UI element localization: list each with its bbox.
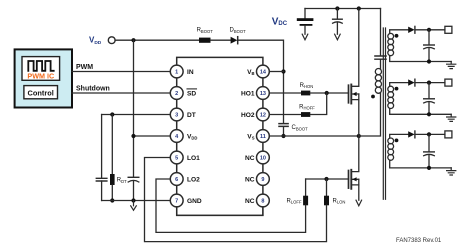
ground output 1 <box>447 62 456 69</box>
svg-text:Control: Control <box>28 88 54 97</box>
wire VS line <box>269 135 359 137</box>
node gate Q2 <box>324 177 328 181</box>
pin labels right <box>241 69 255 205</box>
svg-text:14: 14 <box>260 70 267 76</box>
pin 3 <box>170 108 183 121</box>
terminal output 3 <box>445 131 452 138</box>
svg-text:CBOOT: CBOOT <box>292 125 309 131</box>
node switching <box>357 134 361 138</box>
wire pin12 to RHOFF <box>269 114 301 116</box>
pin 6 <box>170 173 183 186</box>
node top2 <box>357 6 361 10</box>
svg-text:PWM: PWM <box>76 64 93 71</box>
node VB <box>281 69 285 73</box>
terminal output 1 <box>445 26 452 33</box>
wire pin14 stub <box>269 71 283 73</box>
svg-text:2: 2 <box>175 91 178 97</box>
resistor RBOOT <box>199 38 211 43</box>
svg-text:7: 7 <box>175 199 178 205</box>
SD overline <box>187 88 197 90</box>
resistor RHOFF <box>301 112 310 117</box>
svg-text:RHON: RHON <box>300 83 314 89</box>
ground arrow left <box>131 201 137 211</box>
pin 13 <box>257 87 270 100</box>
wire RLON top stub <box>326 179 328 196</box>
svg-text:RBOOT: RBOOT <box>197 28 214 34</box>
svg-text:6: 6 <box>175 177 178 183</box>
PWM IC inner box <box>22 57 60 81</box>
wire pin13 to RHON <box>269 92 301 94</box>
svg-text:RLOFF: RLOFF <box>286 198 301 204</box>
primary winding <box>375 69 381 75</box>
resistor RHON <box>301 91 310 96</box>
primary phase dot <box>371 95 375 99</box>
svg-text:IN: IN <box>187 69 194 76</box>
wire RHON to gate Q1 <box>310 92 348 94</box>
ground output 3 <box>447 168 456 175</box>
wire DT down branch <box>101 115 103 179</box>
wire VDD rail <box>115 39 199 41</box>
ground arrow C filter <box>335 34 341 40</box>
capacitor CBOOT <box>279 124 288 127</box>
wire RBOOT to DBOOT <box>211 39 231 41</box>
pin 1 <box>170 65 183 78</box>
wire to output 3 <box>415 133 445 135</box>
svg-text:12: 12 <box>260 113 266 119</box>
pin 14 <box>257 65 270 78</box>
wire to output 2 <box>415 82 445 84</box>
capacitor C series primary <box>375 56 386 59</box>
resistor RLOFF <box>303 196 308 206</box>
svg-text:5: 5 <box>175 156 178 162</box>
pin labels left <box>187 69 202 205</box>
node CBOOT/VS <box>281 134 285 138</box>
svg-text:3: 3 <box>175 113 178 119</box>
wire GND pin7-pin8 jumper <box>177 207 263 216</box>
wire pin4 stub <box>134 135 171 137</box>
svg-text:NC: NC <box>245 198 255 205</box>
resistor RLON <box>324 196 329 206</box>
svg-text:11: 11 <box>260 134 266 140</box>
wire lower gate line <box>306 178 349 180</box>
transformer core <box>383 28 385 199</box>
capacitor C1 <box>96 178 107 181</box>
diode D1 <box>408 27 414 33</box>
terminal VDD <box>108 37 115 44</box>
pin 8 <box>257 194 270 207</box>
pin 10 <box>257 151 270 164</box>
wire bottom rail 3 <box>390 160 452 168</box>
ground arrow Q2 source <box>356 200 362 206</box>
wire to output 1 <box>415 29 445 31</box>
wire CBOOT to VS <box>283 127 285 136</box>
ground output 2 <box>447 114 456 121</box>
wire C1 to ground rail <box>101 181 103 201</box>
transistor Q1 (high side MOSFET) <box>351 9 359 87</box>
svg-text:FAN7383 Rev.01: FAN7383 Rev.01 <box>396 238 442 244</box>
wire Shutdown <box>72 92 170 94</box>
svg-text:DBOOT: DBOOT <box>229 28 246 34</box>
capacitor C out1 <box>428 30 430 45</box>
svg-text:LO2: LO2 <box>187 176 200 183</box>
ground arrow CDC <box>302 34 308 40</box>
diode DBOOT <box>231 37 238 44</box>
svg-text:RDT: RDT <box>117 177 127 183</box>
svg-text:NC: NC <box>245 176 255 183</box>
svg-text:13: 13 <box>260 91 266 97</box>
svg-text:PWM IC: PWM IC <box>27 72 54 81</box>
resistor RDT <box>110 174 115 185</box>
svg-text:GND: GND <box>187 198 202 205</box>
IC U1 FAN7383 outline <box>177 57 263 215</box>
secondary 3 winding <box>390 134 409 138</box>
pin 9 <box>257 173 270 186</box>
transistor Q2 (low side MOSFET) <box>351 136 359 172</box>
Control inner box <box>24 86 58 99</box>
terminal output 2 <box>445 79 452 86</box>
svg-text:Shutdown: Shutdown <box>76 86 110 93</box>
wire RDT to ground rail <box>111 185 113 201</box>
pin 11 <box>257 130 270 143</box>
pin 7 <box>170 194 183 207</box>
svg-text:HO2: HO2 <box>241 112 255 119</box>
wire RHOFF up to gate node <box>310 93 326 115</box>
node gate Q1 <box>325 91 329 95</box>
svg-text:HO1: HO1 <box>241 90 255 97</box>
wire C2 to ground rail <box>133 181 135 200</box>
capacitor C out2 <box>428 83 430 99</box>
svg-text:8: 8 <box>261 199 264 205</box>
secondary 1 winding <box>390 30 409 34</box>
pin 2 <box>170 87 183 100</box>
node VDD/pin4 branch <box>131 38 135 42</box>
svg-text:1: 1 <box>175 70 178 76</box>
wire VDD vertical <box>133 40 135 177</box>
node ground <box>131 198 135 202</box>
node top1 <box>335 6 339 10</box>
svg-text:RLON: RLON <box>333 198 346 204</box>
diode D3 <box>408 131 414 137</box>
PWM waveform glyph <box>28 61 53 71</box>
wire LO2 route <box>156 179 306 232</box>
pin 4 <box>170 130 183 143</box>
node pin4 <box>131 134 135 138</box>
wire VDC top line <box>305 8 381 10</box>
diode D2 <box>408 79 414 85</box>
svg-text:9: 9 <box>261 177 264 183</box>
svg-text:SD: SD <box>187 90 196 97</box>
wire bottom rail 2 <box>390 109 452 115</box>
svg-text:DT: DT <box>187 112 196 119</box>
wire RDT branch <box>111 115 113 175</box>
ground rail <box>102 200 171 202</box>
node RDT/ground <box>110 198 114 202</box>
svg-text:NC: NC <box>245 155 255 162</box>
capacitor C2 (VDD bypass) <box>128 176 139 178</box>
svg-text:10: 10 <box>260 156 266 162</box>
PWM controller block <box>15 49 72 107</box>
svg-text:RHOFF: RHOFF <box>299 104 315 110</box>
wire RLOFF top stub <box>305 179 307 196</box>
wire DBOOT to VB <box>238 40 284 123</box>
wire LO1 route <box>145 158 327 242</box>
wire PWM <box>72 71 170 73</box>
svg-text:LO1: LO1 <box>187 155 200 162</box>
pin 12 <box>257 108 270 121</box>
pin 5 <box>170 151 183 164</box>
pin numbers <box>175 70 267 205</box>
capacitor C out3 <box>428 134 430 151</box>
secondary 2 winding <box>390 83 409 87</box>
capacitor CDC bulk <box>304 9 306 19</box>
capacitor C filter <box>336 9 338 19</box>
wire DT <box>102 114 171 116</box>
transformer T1 primary branch <box>380 9 382 56</box>
wire bottom rail 1 <box>390 56 452 62</box>
node DT/RDT <box>110 112 114 116</box>
